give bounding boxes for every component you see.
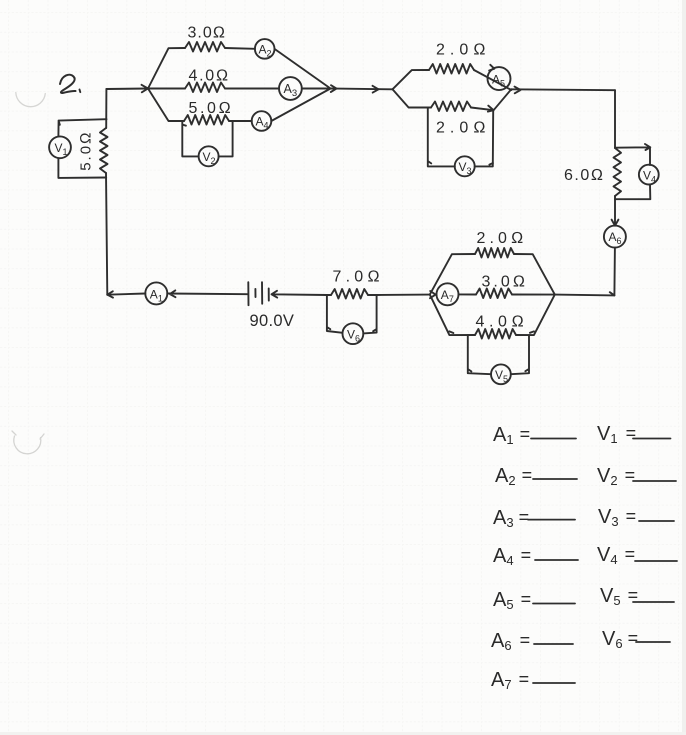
answer blank line A2 — [533, 478, 577, 480]
node: arrow before bank2 — [373, 86, 379, 93]
answer blank line V2 — [633, 480, 676, 482]
svg-text:4.0Ω: 4.0Ω — [189, 68, 230, 85]
resistor 5.0 ohm (bank1 bottom) — [184, 115, 229, 125]
svg-text:5.0Ω: 5.0Ω — [78, 130, 95, 170]
wire: A1 to battery with arrow at meter — [167, 290, 247, 297]
wire: hexagon to bottom right corner — [555, 294, 615, 297]
wire: right rail top — [614, 90, 616, 148]
wire: hexagon bottom diagonal right — [516, 295, 555, 336]
answer blank line V4 — [635, 560, 677, 562]
svg-text:90.0V: 90.0V — [250, 312, 295, 330]
answer blank line A3 — [528, 519, 575, 521]
wire: bank1 middle lead — [148, 88, 185, 90]
wire: hexagon top diagonal right — [514, 254, 555, 295]
resistor 2.0 ohm (hexagon top) — [475, 248, 514, 258]
voltmeter V1 loop bottom wire — [58, 158, 106, 178]
ammeter A4 — [252, 111, 272, 131]
ammeter A1 — [145, 282, 167, 304]
wire: bank1 top diagonal — [148, 48, 185, 89]
voltmeter V2 loop left wire — [182, 122, 198, 157]
wire: 6.0 ohm to A6 with arrow — [612, 196, 619, 226]
node: bank1 right junction arrow — [331, 85, 337, 92]
voltmeter V6 loop right wire — [363, 295, 376, 333]
wire: bottom left to A1 — [107, 294, 145, 295]
voltmeter V5 loop right wire — [511, 335, 529, 374]
node: bottom left corner arrow — [107, 291, 113, 297]
problem number 2. — [60, 75, 80, 93]
wire: 7.0 ohm to hexagon — [368, 294, 430, 296]
answer blank line V5 — [633, 601, 674, 603]
wire: left rail top — [105, 89, 107, 128]
answer blank line V1 — [633, 438, 671, 440]
answer blank line V3 — [639, 520, 674, 522]
ammeter A6 — [604, 226, 626, 248]
resistor 4.0 ohm (hexagon bottom) — [475, 329, 516, 339]
answer blank line A5 — [533, 603, 575, 605]
voltmeter V5 — [491, 364, 511, 384]
svg-text:7.0Ω: 7.0Ω — [333, 269, 384, 286]
right paper edge shadow — [682, 0, 686, 735]
resistor 2.0 ohm (bank2 top) — [429, 64, 474, 74]
wire: bank1 to bank2 — [337, 88, 393, 91]
voltmeter V3 loop right wire — [475, 111, 494, 167]
wire: A7 to 3.0 ohm — [459, 293, 477, 295]
wire: A4 to bank1 right junction — [271, 89, 330, 122]
resistor 2.0 ohm (bank2 bottom) — [431, 102, 471, 112]
answer blank line A7 — [533, 682, 575, 684]
wire: A2 to bank1 right junction — [275, 49, 331, 89]
wire: 2.0 ohm through A5 to right junction — [474, 65, 511, 90]
svg-text:4.0Ω: 4.0Ω — [476, 314, 529, 331]
answer blank line A4 — [535, 559, 578, 561]
svg-text:6.0Ω: 6.0Ω — [564, 167, 605, 184]
voltmeter V4 loop top wire — [615, 144, 650, 165]
answer blank line A1 — [531, 438, 576, 440]
voltmeter V6 — [343, 323, 364, 344]
wire: hexagon bottom diagonal left — [430, 295, 475, 336]
wire: bank2 top diagonal — [393, 70, 430, 89]
battery plate short — [254, 289, 256, 297]
svg-text:3.0Ω: 3.0Ω — [482, 274, 529, 291]
battery plate short right — [268, 288, 270, 300]
battery plate long — [261, 282, 263, 304]
ammeter A7 — [437, 283, 459, 305]
wire: 5.0 ohm to A4 — [229, 120, 252, 122]
wire: lead into 7.0 ohm — [327, 294, 331, 296]
answer blank line A6 — [534, 643, 573, 645]
bottom paper edge shadow — [0, 732, 686, 735]
voltmeter V3 — [455, 156, 475, 176]
ammeter A3 — [279, 77, 302, 100]
svg-text:2.0Ω: 2.0Ω — [436, 42, 491, 59]
resistor 7.0 ohm — [331, 289, 368, 299]
voltmeter V3 loop left wire — [428, 108, 455, 166]
answer blank line V6 — [636, 641, 670, 643]
resistor 3.0 ohm (hexagon middle) — [476, 289, 512, 299]
wire: bank2 bottom to right corner with arrow — [471, 89, 511, 111]
battery plate long left — [247, 282, 249, 305]
voltmeter V5 loop left wire — [468, 335, 491, 374]
voltmeter V6 loop left wire — [327, 295, 343, 333]
wire: 3.0 ohm to A2 — [225, 47, 255, 50]
resistor R1 5.0 ohm (left vertical) — [100, 128, 108, 173]
wire: 4.0 ohm to A3 — [225, 88, 279, 90]
ammeter A2 — [255, 39, 275, 59]
punch hole middle — [12, 431, 44, 454]
wire: A3 to bank1 right junction — [302, 88, 331, 90]
svg-text:5.0Ω: 5.0Ω — [189, 100, 234, 117]
wire: hexagon top diagonal left — [430, 254, 475, 295]
resistor 3.0 ohm — [185, 42, 225, 52]
voltmeter V2 — [199, 146, 219, 166]
svg-text:2.0Ω: 2.0Ω — [477, 230, 528, 247]
wire: 3.0 ohm to hexagon right corner — [512, 294, 555, 296]
svg-text:2.0Ω: 2.0Ω — [436, 120, 491, 137]
voltmeter V4 — [639, 165, 659, 185]
wire: battery to 7.0 ohm section with arrow — [272, 291, 328, 298]
voltmeter V2 loop right wire — [219, 121, 233, 156]
punch hole top — [16, 93, 46, 107]
ammeter A5 — [488, 67, 511, 90]
resistor 4.0 ohm — [185, 83, 225, 93]
voltmeter V4 loop bottom wire — [615, 184, 650, 199]
voltmeter V1 loop top wire — [58, 119, 106, 136]
node: bank1 left junction arrow — [142, 85, 149, 93]
wire: bank2 to right rail — [511, 87, 615, 94]
wire: bank2 bottom diagonal — [393, 89, 432, 107]
wire: top run to bank1 — [106, 88, 148, 91]
voltmeter V1 — [49, 136, 71, 158]
resistor R7 6.0 ohm (right vertical) — [614, 148, 622, 196]
wire: A6 to bottom right corner — [610, 248, 615, 296]
wire: left rail bottom — [106, 173, 107, 295]
svg-text:3.0Ω: 3.0Ω — [188, 25, 227, 42]
wire: bank1 bottom diagonal — [148, 89, 184, 122]
node: hexagon left corner arrow — [430, 291, 436, 298]
